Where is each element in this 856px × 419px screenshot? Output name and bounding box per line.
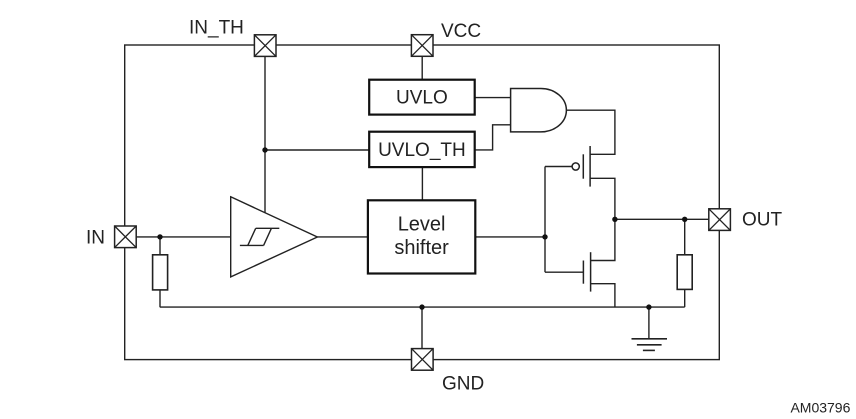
svg-text:GND: GND — [442, 373, 484, 394]
svg-text:OUT: OUT — [742, 209, 783, 230]
svg-text:VCC: VCC — [441, 21, 481, 42]
svg-text:IN_TH: IN_TH — [189, 18, 244, 39]
svg-text:shifter: shifter — [394, 237, 449, 259]
svg-text:UVLO: UVLO — [396, 88, 448, 109]
svg-text:UVLO_TH: UVLO_TH — [378, 140, 466, 161]
svg-text:IN: IN — [86, 228, 105, 249]
svg-text:AM03796: AM03796 — [790, 400, 850, 416]
svg-text:Level: Level — [398, 213, 446, 235]
